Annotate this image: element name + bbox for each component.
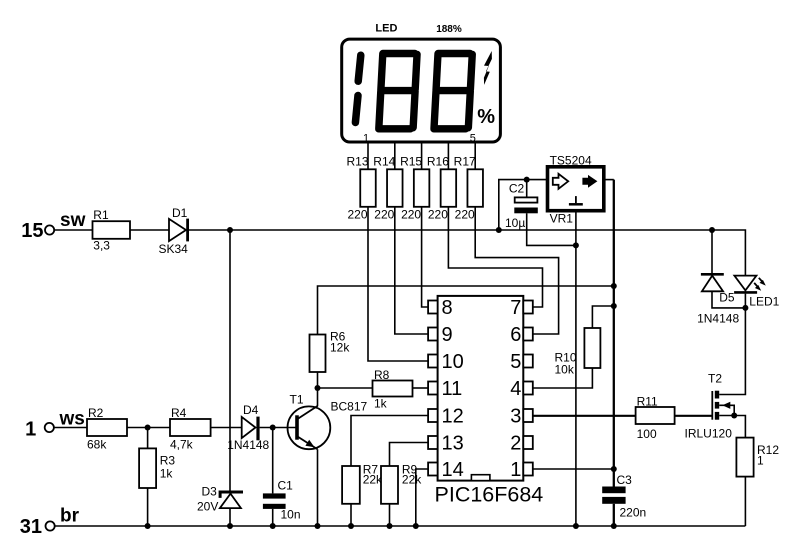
- pin 7 stub: [523, 301, 533, 314]
- wire C2 bottom lead to gnd line: [527, 213, 576, 245]
- node junction D4-C1-T1: [270, 425, 276, 431]
- svg-text:10k: 10k: [555, 363, 575, 377]
- wire R9 bottom to rail: [389, 504, 391, 526]
- wire R12 bottom to rail: [744, 477, 746, 526]
- wire R7 bottom to rail: [350, 504, 352, 526]
- resistor R13: [360, 169, 376, 207]
- resistor R1: [93, 221, 131, 239]
- pin 13 stub: [428, 436, 438, 449]
- wire R17 to pin6: [475, 207, 558, 334]
- capacitor C2: [515, 197, 538, 202]
- wire R4 to D4: [211, 427, 242, 429]
- wire pin12 to R7: [351, 416, 428, 467]
- wire R3 bottom lead: [147, 488, 149, 526]
- svg-text:%: %: [477, 106, 495, 128]
- svg-text:1N4148: 1N4148: [697, 312, 739, 326]
- wire R8 to pin11: [413, 387, 429, 389]
- wire C2 top lead: [526, 180, 528, 198]
- svg-text:22k: 22k: [402, 473, 422, 487]
- svg-text:D4: D4: [243, 403, 259, 417]
- svg-text:SK34: SK34: [159, 242, 189, 256]
- resistor R6: [310, 335, 326, 373]
- wire display pin1 to R13: [367, 142, 369, 169]
- svg-text:T1: T1: [290, 393, 304, 407]
- node junction rail-C3: [611, 523, 617, 529]
- wire R14 to pin9: [395, 207, 428, 334]
- svg-text:LED: LED: [375, 23, 397, 35]
- resistor R3: [139, 448, 156, 488]
- pin 9 stub: [428, 328, 438, 341]
- pin 10 stub: [428, 355, 438, 368]
- svg-text:R15: R15: [400, 154, 422, 168]
- wire R6 top to 5V: [318, 286, 614, 335]
- svg-text:5: 5: [470, 132, 476, 144]
- 7-segment display module: [342, 39, 501, 142]
- display digit 8 (first): [379, 54, 417, 129]
- wire pin1 to 5V line: [533, 468, 614, 470]
- wire R10 top to 5V: [592, 306, 613, 328]
- svg-text:PIC16F684: PIC16F684: [435, 483, 544, 507]
- wire C3 bottom to rail: [613, 504, 615, 526]
- svg-text:sw: sw: [60, 210, 86, 231]
- wire R16 to pin7: [448, 207, 542, 307]
- transistor T2 IRLU120: [711, 391, 713, 420]
- wire node A to R8: [318, 387, 373, 389]
- node junction D5-LED1: [742, 305, 748, 311]
- wire pin3 to R11: [533, 415, 636, 417]
- wire R10 bottom to pin4: [533, 368, 593, 388]
- node junction rail-R9: [387, 523, 393, 529]
- pin 11 stub: [428, 382, 438, 395]
- node node A R6-R8-T1: [315, 385, 321, 391]
- wire pin14 to ground rail: [416, 469, 428, 526]
- terminal 31: [46, 521, 55, 530]
- svg-text:R17: R17: [454, 154, 476, 168]
- resistor R8: [373, 381, 413, 397]
- svg-text:220: 220: [347, 208, 367, 222]
- node junction 5V-R10: [611, 303, 617, 309]
- svg-text:R4: R4: [171, 406, 187, 420]
- svg-text:10n: 10n: [281, 507, 301, 521]
- pin 4 stub: [523, 382, 533, 395]
- svg-text:R2: R2: [88, 406, 104, 420]
- pin 8 stub: [428, 301, 438, 314]
- wire ground bottom rail: [55, 525, 746, 527]
- svg-text:1: 1: [757, 453, 764, 467]
- pin 14 stub: [428, 463, 438, 476]
- wire 5V supply line down: [613, 180, 615, 469]
- svg-text:220: 220: [374, 208, 394, 222]
- pin 1 stub: [523, 463, 533, 476]
- svg-text:220: 220: [428, 208, 448, 222]
- svg-text:1N4148: 1N4148: [227, 438, 269, 452]
- resistor R9: [381, 466, 398, 504]
- wire R13 to pin10: [368, 207, 428, 361]
- svg-text:BC817: BC817: [331, 400, 368, 414]
- svg-text:T2: T2: [708, 372, 722, 386]
- wire terminal15 to R1: [54, 229, 92, 231]
- svg-text:R8: R8: [374, 368, 390, 382]
- svg-text:D3: D3: [202, 485, 218, 499]
- display digit 8 (second): [434, 54, 472, 129]
- svg-text:4,7k: 4,7k: [170, 438, 194, 452]
- node junction 5V-R6: [611, 283, 617, 289]
- wire LED1 to T2 drain: [719, 294, 745, 395]
- node junction rail-gndline: [573, 523, 579, 529]
- wire display pin4 to R16: [447, 142, 449, 169]
- resistor R10: [584, 328, 600, 368]
- display lightning bolt: [484, 51, 492, 85]
- wire rail to VR1 input branch: [499, 180, 548, 230]
- svg-text:14: 14: [442, 459, 464, 481]
- svg-text:ws: ws: [59, 409, 85, 430]
- svg-text:1: 1: [25, 418, 36, 440]
- node junction rail-VR1in: [496, 227, 502, 233]
- display digit 1: [355, 55, 360, 122]
- pin 12 stub: [428, 409, 438, 422]
- zener diode D3: [220, 492, 243, 498]
- wire rail to D5: [711, 230, 713, 273]
- svg-text:15: 15: [21, 220, 43, 242]
- svg-text:LED1: LED1: [749, 294, 779, 308]
- svg-text:22k: 22k: [363, 473, 383, 487]
- svg-text:8: 8: [442, 297, 453, 319]
- wire C1 top lead: [272, 428, 274, 494]
- svg-text:10µ: 10µ: [505, 216, 525, 230]
- wire VR1 gnd lead: [575, 211, 577, 246]
- svg-text:R16: R16: [427, 154, 449, 168]
- voltage regulator VR1 TS5204: [548, 167, 604, 211]
- svg-text:1: 1: [363, 132, 369, 144]
- pin 3 stub: [523, 409, 533, 422]
- node junction VR1in-C2: [524, 177, 530, 183]
- wire D3 to ground rail: [229, 508, 231, 526]
- svg-text:TS5204: TS5204: [550, 154, 592, 168]
- wire T1 emitter to ground rail: [317, 449, 319, 526]
- resistor R15: [414, 169, 430, 207]
- wire T2 body to source: [719, 405, 734, 415]
- svg-text:6: 6: [510, 324, 521, 346]
- wire D5 to LED1 cathode join: [712, 291, 745, 308]
- wire R15 to pin8: [422, 207, 429, 307]
- chip notch: [471, 475, 490, 481]
- terminal 1: [45, 423, 54, 432]
- wire C1 bottom lead: [272, 509, 274, 526]
- svg-text:3,3: 3,3: [93, 239, 110, 253]
- svg-text:31: 31: [20, 516, 42, 538]
- node junction T2 source: [731, 413, 737, 419]
- diode D5: [701, 273, 724, 276]
- svg-text:1: 1: [510, 459, 521, 481]
- wire VR1 output lead: [604, 179, 614, 181]
- svg-text:11: 11: [442, 378, 463, 400]
- capacitor C3: [602, 487, 625, 494]
- node junction rail-R7: [348, 523, 354, 529]
- wire D4 to T1 base: [260, 427, 296, 429]
- svg-text:C3: C3: [617, 473, 633, 487]
- svg-text:12: 12: [442, 406, 464, 428]
- svg-text:3: 3: [510, 406, 521, 428]
- svg-text:20V: 20V: [197, 500, 218, 514]
- wire 5V to C3 top: [613, 469, 615, 487]
- transistor T1 BC817: [288, 406, 331, 449]
- node junction R2-R3-R4: [145, 425, 151, 431]
- node junction 5V-pin1: [611, 466, 617, 472]
- wire terminal1 to R2: [54, 427, 87, 429]
- svg-text:VR1: VR1: [550, 211, 574, 225]
- wire gnd line down to bottom rail: [575, 245, 577, 526]
- diode D1: [169, 219, 186, 241]
- resistor R16: [441, 169, 457, 207]
- resistor R14: [387, 169, 403, 207]
- node junction rail-D3b: [227, 523, 233, 529]
- resistor R11: [636, 407, 675, 424]
- svg-text:7: 7: [510, 297, 521, 319]
- svg-text:100: 100: [637, 427, 657, 441]
- svg-text:R11: R11: [637, 395, 658, 409]
- node junction rail-D5: [709, 227, 715, 233]
- svg-text:5: 5: [510, 351, 521, 373]
- wire display pin2 to R14: [394, 142, 396, 169]
- wire pin13 to R9: [390, 443, 429, 467]
- node junction C2-VR1gnd: [573, 242, 579, 248]
- wire display pin3 to R15: [421, 142, 423, 169]
- wire T2 source to R12: [719, 416, 745, 438]
- svg-text:1k: 1k: [160, 467, 174, 481]
- svg-text:C1: C1: [278, 478, 294, 492]
- LED LED1: [734, 276, 756, 291]
- svg-text:10: 10: [442, 351, 464, 373]
- wire rail to D3 zener drop: [229, 230, 231, 491]
- svg-text:C2: C2: [509, 181, 525, 195]
- pin 6 stub: [523, 328, 533, 341]
- resistor R4: [170, 419, 211, 436]
- svg-text:188%: 188%: [436, 24, 462, 35]
- wire display pin5 to R17: [474, 142, 476, 169]
- resistor R7: [342, 466, 360, 504]
- resistor R17: [467, 169, 483, 207]
- svg-text:IRLU120: IRLU120: [685, 426, 733, 440]
- wire R6 bottom to T1 collector: [317, 372, 319, 406]
- wire R2 to R4: [127, 427, 170, 429]
- resistor R12: [736, 438, 753, 477]
- svg-text:R3: R3: [160, 454, 176, 468]
- node junction rail-T1e: [315, 523, 321, 529]
- wire R1 to D1: [130, 229, 169, 231]
- svg-text:br: br: [60, 506, 80, 527]
- svg-text:R13: R13: [346, 154, 368, 168]
- svg-text:68k: 68k: [87, 438, 107, 452]
- node junction rail-D3: [227, 227, 233, 233]
- svg-text:220: 220: [401, 208, 421, 222]
- svg-text:220: 220: [455, 208, 475, 222]
- svg-text:2: 2: [510, 433, 521, 455]
- terminal 15: [45, 225, 54, 234]
- wire D1 to top rail right corner down to LED1: [189, 230, 746, 276]
- svg-text:12k: 12k: [330, 341, 350, 355]
- op-amp U1 PIC16F684 body: [438, 296, 524, 481]
- node junction rail-R3: [145, 523, 151, 529]
- capacitor C1: [263, 493, 286, 498]
- diode D4: [242, 417, 256, 438]
- wire R3 top lead: [147, 428, 149, 449]
- svg-text:220n: 220n: [620, 505, 647, 519]
- pin 2 stub: [523, 436, 533, 449]
- wire R11 to T2 gate: [675, 415, 713, 417]
- resistor R2: [87, 419, 127, 436]
- svg-text:R1: R1: [93, 208, 109, 222]
- svg-text:1k: 1k: [374, 397, 388, 411]
- node junction rail-C1: [270, 523, 276, 529]
- svg-text:D1: D1: [172, 206, 188, 220]
- svg-text:13: 13: [442, 433, 464, 455]
- svg-text:R14: R14: [373, 154, 395, 168]
- svg-text:D5: D5: [719, 291, 735, 305]
- svg-text:4: 4: [510, 378, 521, 400]
- svg-text:9: 9: [442, 324, 453, 346]
- node junction rail-pin14: [413, 523, 419, 529]
- pin 5 stub: [523, 355, 533, 368]
